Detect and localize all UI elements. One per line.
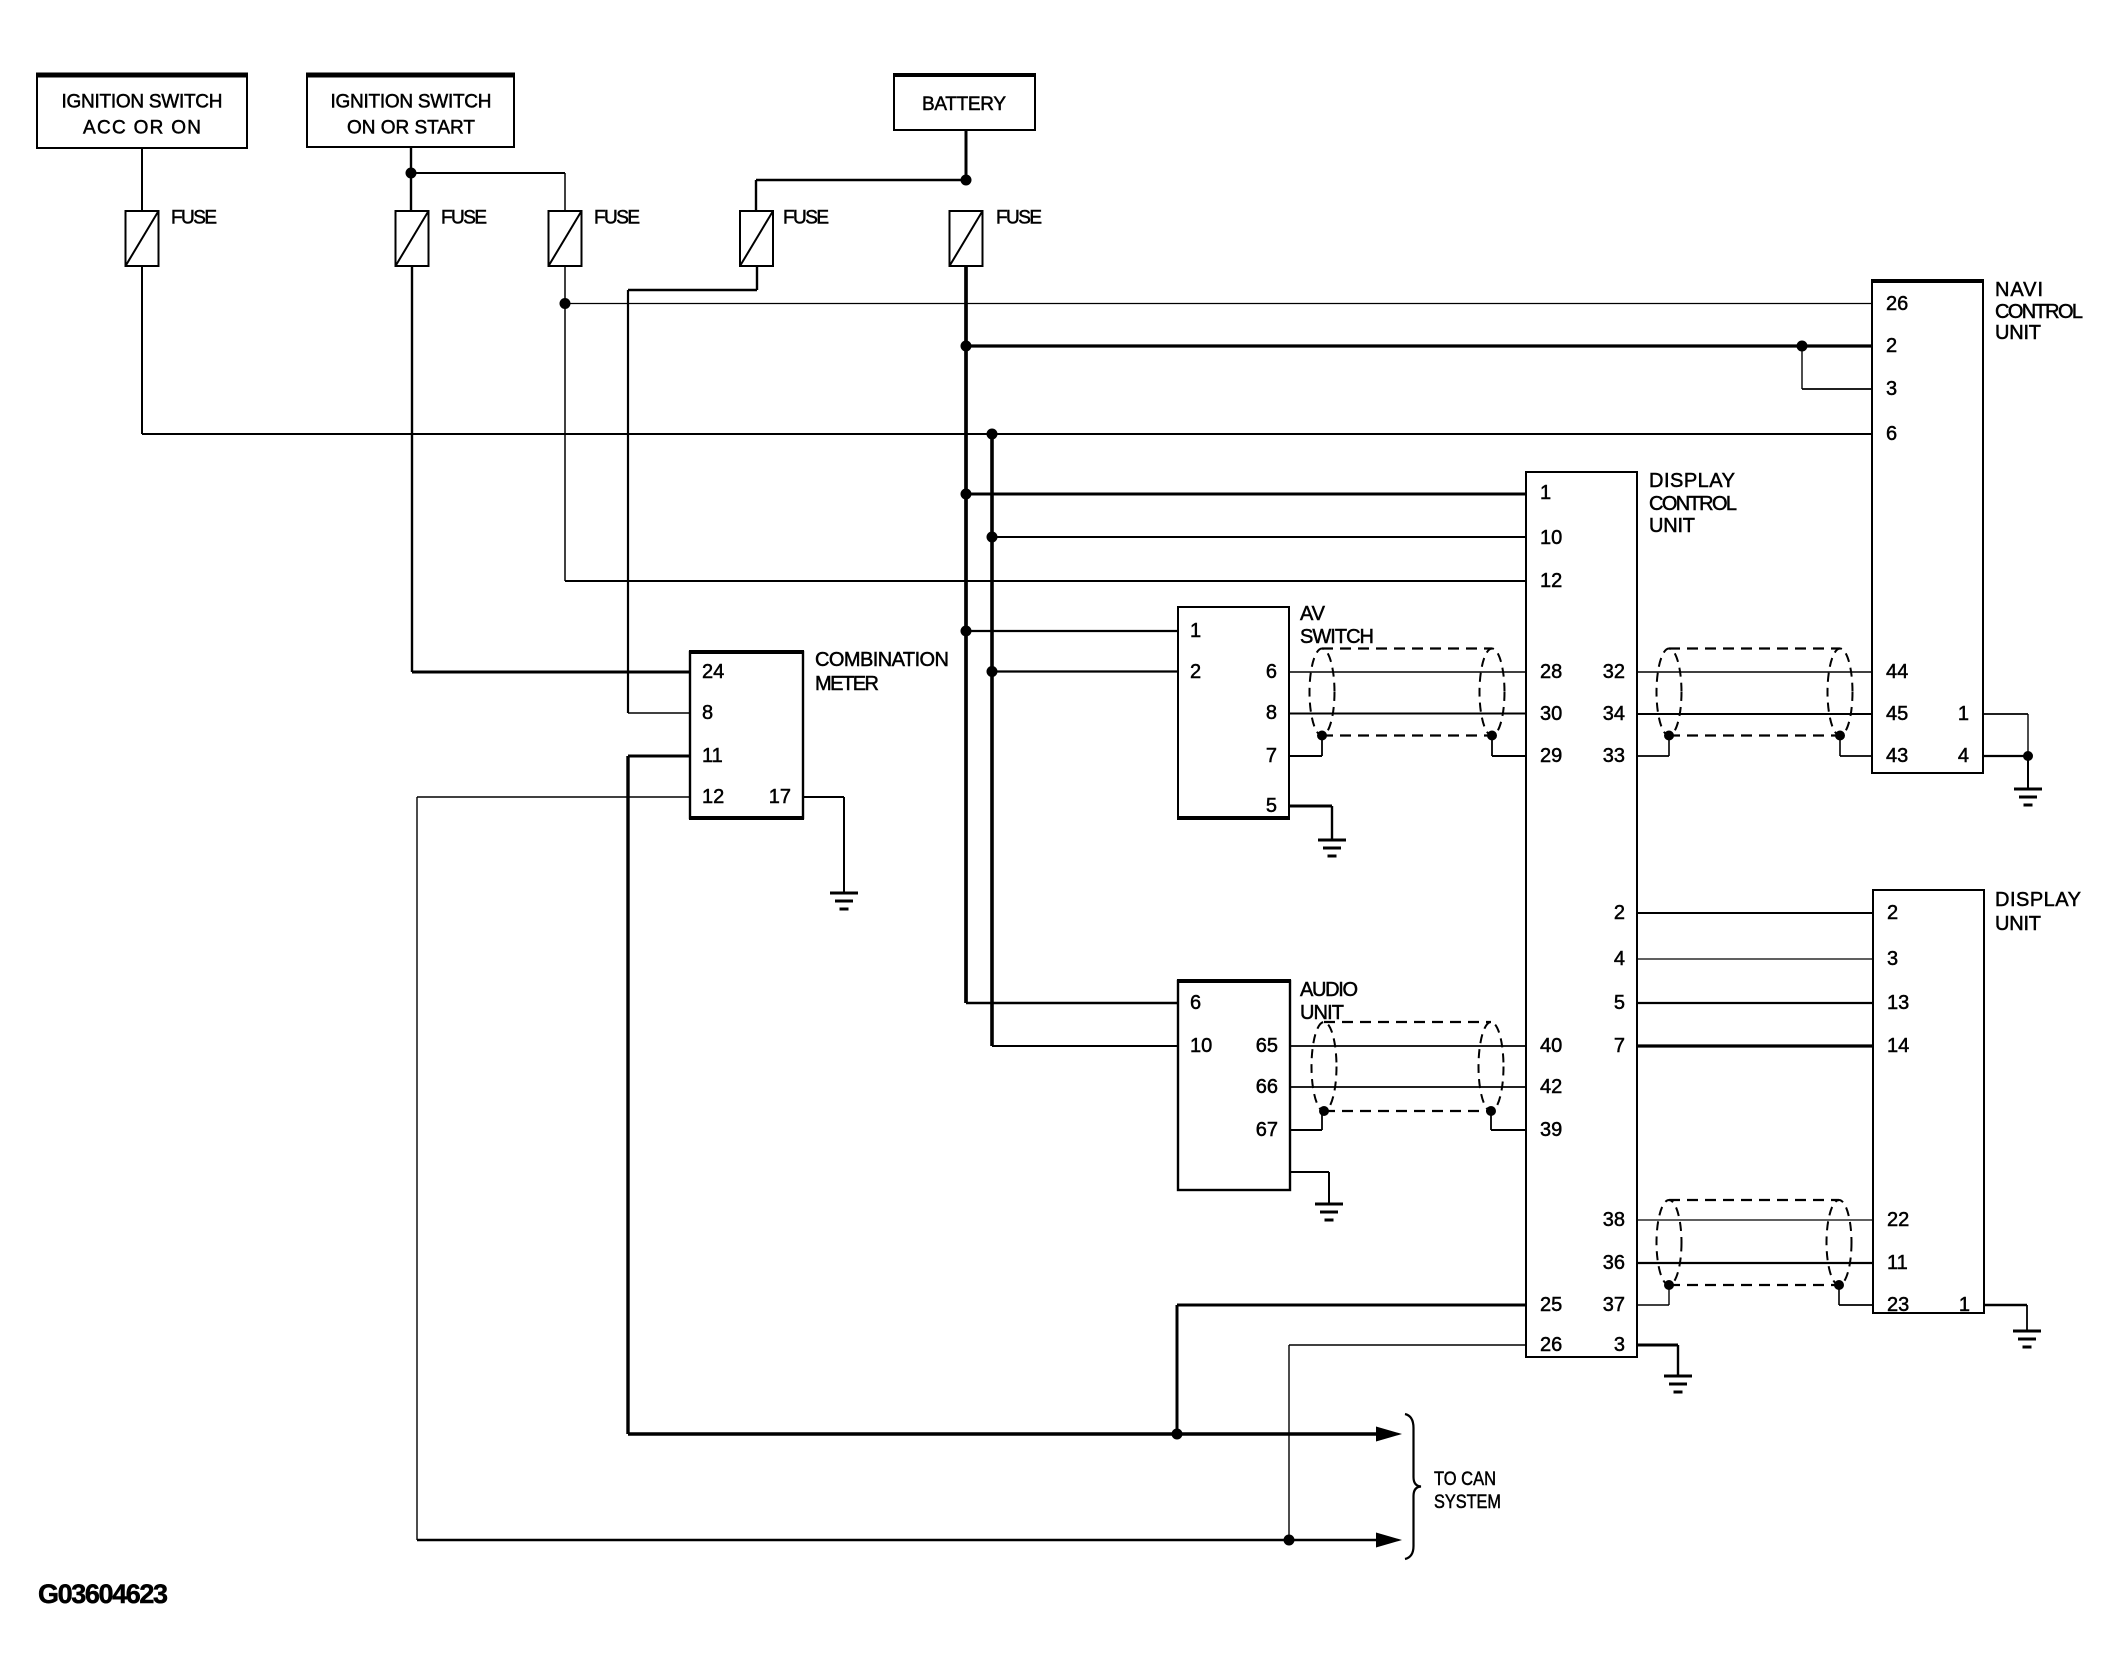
box: NAVI CONTROL UNIT	[1871, 281, 1984, 773]
wire: shield drain into NAVI 43	[1840, 755, 1872, 757]
svg-text:45: 45	[1886, 703, 1908, 725]
svg-text:UNIT: UNIT	[1995, 322, 2041, 344]
svg-text:ON OR START: ON OR START	[347, 118, 475, 139]
ground of COMBINATION METER pin 17	[830, 893, 858, 909]
wire: CAN low branch vertical	[1288, 1345, 1290, 1540]
svg-text:42: 42	[1540, 1076, 1562, 1098]
wire: drain vertical (NAVI side)	[1839, 736, 1841, 756]
svg-text:FUSE: FUSE	[783, 208, 829, 229]
svg-text:32: 32	[1603, 661, 1625, 683]
svg-text:5: 5	[1266, 795, 1277, 817]
svg-text:AV: AV	[1300, 603, 1326, 625]
wire: drain vertical (DCU side lower)	[1668, 1285, 1670, 1305]
wire: DCU 2 to DISPLAY UNIT 2	[1637, 912, 1873, 914]
wire: DCU 4 to DISPLAY UNIT 3	[1637, 958, 1873, 960]
arrowhead CAN high to CAN system	[1376, 1427, 1402, 1442]
wire: CAN low bus to arrow	[417, 1539, 1376, 1542]
wire: DCU ground lead	[1677, 1345, 1679, 1376]
wire: down to fuse F3 top	[564, 173, 566, 211]
wire: NAVI 1-4 ground jumper	[2027, 714, 2029, 756]
svg-text:29: 29	[1540, 745, 1562, 767]
wire: NAVI ground lead	[2027, 756, 2029, 789]
svg-text:10: 10	[1540, 527, 1562, 549]
wire: IGN ON box to fuse F2	[410, 147, 412, 211]
svg-text:40: 40	[1540, 1035, 1562, 1057]
brace: TO CAN SYSTEM group	[1405, 1414, 1421, 1559]
wire: battery trunk into AUDIO UNIT pin 6	[966, 1002, 1178, 1004]
svg-text:13: 13	[1887, 992, 1909, 1014]
svg-text:BATTERY: BATTERY	[922, 94, 1006, 115]
wire: AUDIO 67 stub to shield drain	[1290, 1129, 1322, 1131]
wire: ACC branch vertical feeder	[990, 434, 994, 1046]
svg-text:12: 12	[1540, 570, 1562, 592]
svg-text:UNIT: UNIT	[1300, 1002, 1344, 1024]
box: IGNITION SWITCH ACC OR ON	[36, 75, 248, 148]
wire: into COMBINATION METER pin 24	[412, 671, 690, 674]
wire: AV SWITCH 7 stub to shield drain	[1289, 755, 1322, 757]
arrowhead CAN low to CAN system	[1376, 1533, 1402, 1548]
svg-text:4: 4	[1958, 745, 1969, 767]
shielded-cable symbol between DCU and NAVI CONTROL UNIT	[1657, 649, 1853, 741]
wire: meter ground lead	[843, 797, 845, 893]
svg-text:65: 65	[1256, 1035, 1278, 1057]
wire: DCU 32 to NAVI 44 (shielded)	[1637, 671, 1872, 673]
ground of AV SWITCH pin 5	[1318, 840, 1346, 856]
wire: audio shield drain left vertical	[1321, 1111, 1323, 1130]
svg-text:3: 3	[1886, 378, 1897, 400]
box: DISPLAY CONTROL UNIT	[1526, 472, 1637, 1357]
wire: DCU 33 stub to shield drain	[1637, 755, 1669, 757]
box: BATTERY	[893, 75, 1036, 130]
box: IGNITION SWITCH ON OR START	[306, 75, 515, 147]
ground of NAVI CONTROL UNIT pins 1/4	[2014, 789, 2042, 805]
wire: ACC feeder to AV SWITCH pin 2	[992, 670, 1178, 672]
fuse F5 (main battery fuse)	[950, 211, 983, 266]
svg-text:4: 4	[1614, 948, 1625, 970]
svg-text:3: 3	[1887, 948, 1898, 970]
svg-text:2: 2	[1887, 902, 1898, 924]
wire: down to fuse F4 top	[755, 180, 757, 211]
svg-text:3: 3	[1614, 1334, 1625, 1356]
svg-text:IGNITION SWITCH: IGNITION SWITCH	[331, 92, 492, 113]
wire: DCU 37 stub to shield drain	[1637, 1304, 1669, 1306]
box: AV SWITCH	[1177, 607, 1290, 818]
node: NAVI 2/3 branch junction	[1797, 341, 1808, 352]
wire: DCU 38 to DISPLAY UNIT 22 (shielded)	[1637, 1219, 1873, 1221]
wire: fuse F2 down to COMBINATION METER 24	[411, 266, 413, 672]
svg-text:2: 2	[1190, 661, 1201, 683]
wire: IGN ACC box to fuse F1	[141, 148, 143, 211]
wire: ACC feeder to DISPLAY CONTROL UNIT pin 10	[992, 536, 1526, 538]
wire: COMBINATION METER pin 11 out (CAN high)	[628, 755, 690, 758]
svg-text:5: 5	[1614, 992, 1625, 1014]
wire: drain vertical (DU side)	[1838, 1285, 1840, 1305]
wire: fuse F3 down (vertical)	[564, 266, 566, 581]
svg-text:28: 28	[1540, 661, 1562, 683]
svg-text:G03604623: G03604623	[38, 1579, 168, 1609]
node: junction IGN ON feed	[406, 168, 417, 179]
wire: NAVI pin 1 to ground stub	[1983, 713, 2028, 715]
svg-text:1: 1	[1190, 620, 1201, 642]
svg-text:34: 34	[1603, 703, 1625, 725]
svg-text:TO CAN: TO CAN	[1434, 1469, 1496, 1490]
node: ACC bus branch junction	[987, 429, 998, 440]
svg-text:CONTROL: CONTROL	[1649, 493, 1737, 515]
svg-text:44: 44	[1886, 661, 1908, 683]
fuse F4 (meter battery feed)	[740, 211, 773, 266]
wire: F3 branch to NAVI pin 26 (horizontal)	[565, 303, 1872, 305]
wire: CAN low vertical	[416, 797, 418, 1540]
wire: F4 feeder down to COMBINATION METER 8	[627, 290, 629, 713]
svg-text:23: 23	[1887, 1294, 1909, 1316]
svg-text:39: 39	[1540, 1119, 1562, 1141]
node: CAN low junction with DCU 26 branch	[1284, 1535, 1295, 1546]
ground of AUDIO UNIT	[1315, 1204, 1343, 1220]
svg-text:67: 67	[1256, 1119, 1278, 1141]
wire: F3 to DISPLAY CONTROL UNIT pin 12	[565, 580, 1526, 582]
svg-text:SWITCH: SWITCH	[1300, 626, 1374, 648]
svg-text:FUSE: FUSE	[996, 208, 1042, 229]
svg-text:IGNITION SWITCH: IGNITION SWITCH	[62, 92, 223, 113]
svg-text:7: 7	[1266, 745, 1277, 767]
svg-text:SYSTEM: SYSTEM	[1434, 1492, 1501, 1513]
node: CAN high junction with DCU 25 branch	[1172, 1429, 1183, 1440]
svg-text:24: 24	[702, 661, 724, 683]
wire: battery trunk to NAVI pin 2 (thick)	[966, 344, 1872, 347]
svg-text:11: 11	[702, 745, 723, 767]
wire: AV shield drain left vertical	[1321, 735, 1323, 756]
wire: AUDIO ground lead	[1328, 1172, 1330, 1204]
svg-text:1: 1	[1540, 482, 1551, 504]
svg-text:FUSE: FUSE	[171, 208, 217, 229]
ground of DISPLAY UNIT pin 1	[2013, 1331, 2041, 1347]
node: ACC feeder to AV SWITCH 2 junction	[987, 666, 998, 677]
wire: DCU 5 to DISPLAY UNIT 13	[1637, 1002, 1873, 1004]
box: COMBINATION METER	[689, 652, 804, 818]
svg-text:COMBINATION: COMBINATION	[815, 649, 949, 671]
wire: AUDIO 65 to DCU 40 (shielded)	[1290, 1045, 1526, 1047]
wire: COMBINATION METER pin 17 to ground	[803, 796, 844, 798]
svg-text:25: 25	[1540, 1294, 1562, 1316]
wire: NAVI pin 4 to ground stub	[1983, 755, 2028, 757]
svg-text:UNIT: UNIT	[1995, 913, 2041, 935]
svg-text:37: 37	[1603, 1294, 1625, 1316]
node: battery junction	[961, 175, 972, 186]
wire: battery trunk (fuse F5 down to AUDIO UNIT 6)	[964, 266, 968, 1003]
wire: DISPLAY UNIT pin 1 to ground stub	[1984, 1304, 2027, 1306]
svg-text:10: 10	[1190, 1035, 1212, 1057]
wire: DISPLAY UNIT ground lead	[2026, 1305, 2028, 1331]
svg-text:6: 6	[1266, 661, 1277, 683]
svg-text:7: 7	[1614, 1035, 1625, 1057]
wire: DCU pin 3 to ground stub	[1637, 1344, 1678, 1347]
svg-text:26: 26	[1886, 293, 1908, 315]
node: trunk to AV SWITCH 1 junction	[961, 626, 972, 637]
wire: ACC bus to NAVI pin 6 (horizontal)	[142, 433, 1872, 435]
svg-text:DISPLAY: DISPLAY	[1649, 470, 1735, 492]
svg-text:17: 17	[769, 786, 791, 808]
wire: fuse F1 to ACC bus (vertical)	[141, 266, 143, 434]
wire: ACC feeder into AUDIO UNIT pin 10	[992, 1045, 1178, 1047]
wire: drain vertical (DCU side)	[1668, 736, 1670, 756]
wire: NAVI 2 to 3 jumper vertical	[1801, 346, 1803, 389]
wire: fuse F4 down	[756, 266, 758, 290]
svg-text:2: 2	[1886, 335, 1897, 357]
svg-text:8: 8	[1266, 702, 1277, 724]
svg-text:26: 26	[1540, 1334, 1562, 1356]
node: trunk to DCU 1 junction	[961, 489, 972, 500]
svg-text:AUDIO: AUDIO	[1300, 979, 1358, 1001]
svg-text:14: 14	[1887, 1035, 1909, 1057]
fuse F3 (NAVI/DCU ign feed)	[549, 211, 582, 266]
wire: AV SWITCH ground lead	[1331, 806, 1333, 840]
node: trunk to NAVI 2 junction	[961, 341, 972, 352]
svg-text:1: 1	[1959, 1294, 1970, 1316]
wire: junction to fuse F3 feed (horizontal)	[411, 172, 565, 174]
wire: AV SWITCH 8 to DCU 30 (shielded)	[1289, 713, 1526, 715]
shielded-cable symbol between DCU and DISPLAY UNIT	[1657, 1200, 1852, 1290]
svg-text:DISPLAY: DISPLAY	[1995, 889, 2081, 911]
wire: CAN high bus to arrow	[628, 1432, 1376, 1435]
svg-text:22: 22	[1887, 1209, 1909, 1231]
svg-text:43: 43	[1886, 745, 1908, 767]
svg-text:30: 30	[1540, 703, 1562, 725]
wire: CAN high branch vertical	[1176, 1305, 1179, 1434]
box: AUDIO UNIT	[1177, 981, 1291, 1190]
svg-text:8: 8	[702, 702, 713, 724]
wire: shield drain into DCU 39	[1491, 1129, 1526, 1131]
svg-text:12: 12	[702, 786, 724, 808]
wire: DCU 26 out (CAN low branch)	[1289, 1344, 1526, 1346]
node: NAVI ground junction	[2023, 751, 2033, 761]
node: F3 branch junction	[560, 298, 571, 309]
svg-text:FUSE: FUSE	[441, 208, 487, 229]
wire: DCU 34 to NAVI 45 (shielded)	[1637, 713, 1872, 715]
svg-text:UNIT: UNIT	[1649, 515, 1695, 537]
wire: battery trunk to DISPLAY CONTROL UNIT pin 1	[966, 493, 1526, 496]
wire: shield drain into DISPLAY UNIT 23	[1839, 1304, 1873, 1306]
fuse F2 (meter feed)	[396, 211, 429, 266]
wire: BATTERY box down to junction	[965, 130, 968, 180]
ground of DCU pin 3	[1664, 1376, 1692, 1392]
wire: COMBINATION METER pin 12 out (CAN low)	[417, 796, 690, 798]
svg-text:METER: METER	[815, 673, 879, 695]
shielded-cable symbol between AV SWITCH and DCU	[1310, 649, 1505, 741]
svg-text:33: 33	[1603, 745, 1625, 767]
wire: AV SWITCH pin 5 to ground	[1289, 805, 1332, 808]
wire: AV SWITCH 6 to DCU 28 (shielded)	[1289, 671, 1526, 673]
wire: DCU 7 to DISPLAY UNIT 14 (thick)	[1637, 1044, 1873, 1047]
svg-text:6: 6	[1886, 423, 1897, 445]
svg-text:2: 2	[1614, 902, 1625, 924]
wire: AUDIO 66 to DCU 42 (shielded)	[1290, 1086, 1526, 1088]
fuse F1 (ignition ACC)	[126, 211, 159, 266]
svg-text:66: 66	[1256, 1076, 1278, 1098]
wire: CAN high vertical	[626, 756, 629, 1434]
wire: AUDIO UNIT case ground stub	[1290, 1171, 1329, 1173]
wire: F4 jog left	[628, 289, 757, 291]
wire: audio shield drain right vertical	[1490, 1111, 1492, 1130]
box: DISPLAY UNIT	[1873, 890, 1984, 1313]
wire: into COMBINATION METER pin 8	[628, 712, 690, 714]
wire: battery junction to fuse F4 feed	[756, 179, 966, 181]
svg-text:6: 6	[1190, 992, 1201, 1014]
svg-text:NAVI: NAVI	[1995, 279, 2043, 301]
shielded-cable symbol between AUDIO UNIT and DCU	[1312, 1022, 1504, 1116]
node: ACC feeder to DCU 10 junction	[987, 532, 998, 543]
svg-text:1: 1	[1958, 703, 1969, 725]
svg-text:36: 36	[1603, 1252, 1625, 1274]
wire: AV shield drain right vertical	[1491, 735, 1493, 756]
svg-text:38: 38	[1603, 1209, 1625, 1231]
wire: DCU 36 to DISPLAY UNIT 11 (shielded)	[1637, 1262, 1873, 1264]
wire: DCU 25 out (CAN high branch)	[1177, 1304, 1526, 1307]
svg-text:ACC OR ON: ACC OR ON	[83, 118, 201, 139]
wire: battery trunk to AV SWITCH pin 1	[966, 630, 1178, 632]
svg-text:CONTROL: CONTROL	[1995, 301, 2083, 323]
wire: into NAVI pin 3	[1802, 388, 1872, 390]
svg-text:FUSE: FUSE	[594, 208, 640, 229]
wire: shield drain into DCU 29	[1492, 755, 1526, 757]
svg-text:11: 11	[1887, 1252, 1908, 1274]
